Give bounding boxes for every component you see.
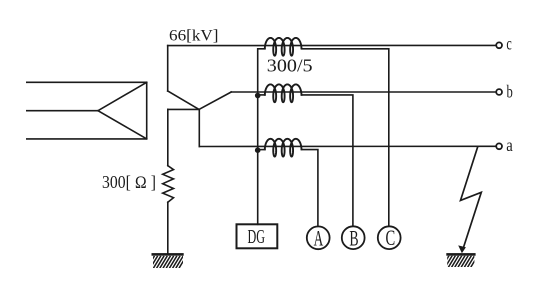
- relay DG box: [237, 224, 278, 248]
- terminal b: [496, 89, 502, 95]
- wire: CT secondary common vertical (to DG): [258, 49, 265, 225]
- svg-text:a: a: [506, 135, 513, 155]
- svg-text:b: b: [507, 82, 513, 102]
- wire: 66kV feed vertical: [167, 46, 169, 91]
- wire: fork diagonal to b-phase: [199, 92, 231, 109]
- wire: a CT secondary left lead: [258, 149, 265, 151]
- wire: c-phase top conductor: [168, 44, 496, 46]
- ground (left, below resistor): [147, 253, 187, 268]
- wire: feed diagonal to fork: [168, 91, 199, 109]
- wire: b-phase conductor: [231, 91, 496, 93]
- svg-text:DG: DG: [248, 226, 266, 248]
- surge path lightning arrow to ground: [461, 147, 482, 249]
- svg-text:c: c: [506, 33, 512, 53]
- wire: c CT secondary to ammeter C: [302, 49, 389, 226]
- junction dot: b secondary tap: [255, 93, 261, 99]
- CT coil a (300/5): [265, 139, 302, 157]
- svg-text:C: C: [386, 225, 396, 250]
- junction dot: a secondary tap: [255, 147, 261, 153]
- wire: resistor to ground: [167, 202, 169, 253]
- cable termination (66kV incoming cable): [27, 82, 147, 139]
- wire: b CT secondary left lead: [258, 94, 265, 96]
- ammeter A: [307, 226, 330, 249]
- CT coil b (300/5): [265, 84, 302, 102]
- wire: fork vertical to a-phase: [198, 109, 200, 146]
- svg-text:B: B: [349, 226, 358, 251]
- resistor 300 ohm (zigzag): [163, 166, 174, 203]
- wire: a-phase conductor: [199, 145, 496, 147]
- CT coil c (300/5): [265, 38, 302, 56]
- wire: a CT secondary to ammeter A: [302, 150, 318, 227]
- svg-text:300/5: 300/5: [267, 55, 313, 75]
- wire: b CT secondary to ammeter B: [302, 95, 353, 226]
- svg-text:300[ Ω ]: 300[ Ω ]: [102, 172, 156, 192]
- terminal c: [496, 42, 502, 48]
- svg-text:66[kV]: 66[kV]: [169, 27, 219, 44]
- wire: resistor branch horizontal: [168, 108, 199, 110]
- ammeter B: [342, 226, 365, 249]
- wire: resistor branch vertical upper: [167, 109, 169, 165]
- ammeter C: [378, 226, 401, 249]
- terminal a: [496, 143, 502, 149]
- ground (right, arrester): [442, 253, 478, 267]
- svg-text:A: A: [314, 225, 324, 250]
